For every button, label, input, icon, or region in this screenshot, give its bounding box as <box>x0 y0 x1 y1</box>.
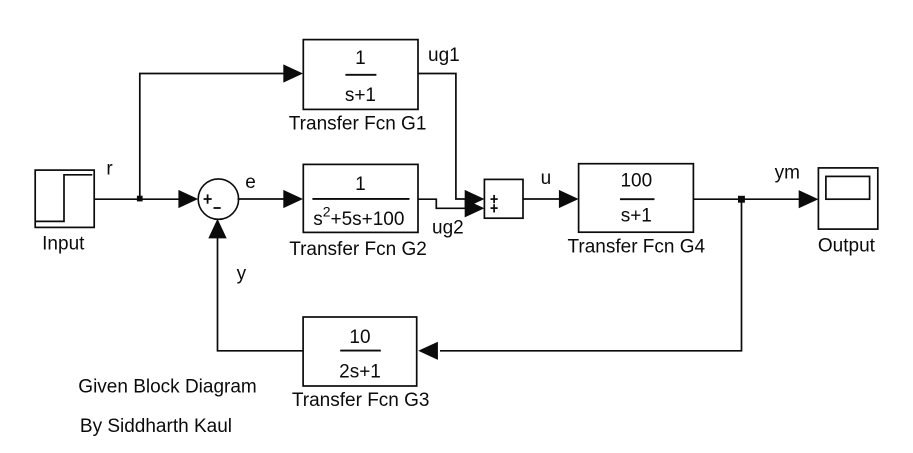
arrowhead into G4 <box>559 190 579 208</box>
feedback wire down and left to G3 <box>440 199 742 351</box>
wire input to junction and on to sum <box>94 198 180 200</box>
svg-text:u: u <box>541 168 552 189</box>
svg-text:By Siddharth Kaul: By Siddharth Kaul <box>80 416 232 437</box>
svg-text:ym: ym <box>775 162 800 183</box>
svg-text:Transfer Fcn G3: Transfer Fcn G3 <box>292 390 430 411</box>
scope Output <box>818 168 877 229</box>
transfer fcn G3 <box>303 317 417 386</box>
arrowhead into G1 <box>283 64 303 82</box>
wire ug1 from G1 down to switch upper input <box>418 74 466 200</box>
svg-text:e: e <box>245 172 256 193</box>
wire G2 to switch lower input <box>418 199 466 208</box>
wire G4 to scope <box>693 198 801 200</box>
sum junction <box>198 179 238 219</box>
arrowhead ug2 into switch <box>465 199 485 217</box>
svg-text:ug2: ug2 <box>432 218 464 239</box>
junction dot at ym <box>738 196 745 203</box>
svg-text:Transfer Fcn G2: Transfer Fcn G2 <box>289 239 427 260</box>
svg-text:1: 1 <box>355 174 366 195</box>
junction dot at r <box>137 196 143 202</box>
wire G3 to sum (feedback y) <box>218 237 304 351</box>
wire branch up from junction <box>140 74 285 200</box>
manual switch block <box>484 179 523 218</box>
svg-text:Input: Input <box>42 234 85 255</box>
svg-text:10: 10 <box>349 327 370 348</box>
arrowhead into G3 <box>418 342 438 360</box>
arrowhead into scope <box>799 190 819 208</box>
step source Input <box>35 170 94 227</box>
transfer fcn G1 <box>303 40 418 110</box>
transfer fcn G4 <box>579 164 694 233</box>
svg-text:s+1: s+1 <box>621 206 652 227</box>
svg-text:1: 1 <box>355 48 366 69</box>
arrowhead r into sum <box>178 190 198 208</box>
wire sum to G2 <box>238 198 286 200</box>
svg-text:Output: Output <box>818 236 876 257</box>
transfer fcn G2 <box>303 164 418 232</box>
wire switch to G4 <box>523 198 560 200</box>
svg-text:y: y <box>237 263 247 284</box>
svg-text:2s+1: 2s+1 <box>339 362 381 383</box>
svg-text:ug1: ug1 <box>428 45 460 66</box>
svg-text:Given Block Diagram: Given Block Diagram <box>78 376 256 397</box>
svg-text:s+1: s+1 <box>345 85 376 106</box>
arrowhead into G2 <box>283 190 303 208</box>
svg-text:s2+5s+100: s2+5s+100 <box>313 204 404 231</box>
arrowhead ug1 into switch <box>465 190 485 208</box>
svg-text:r: r <box>106 158 113 179</box>
svg-text:100: 100 <box>620 171 652 192</box>
svg-text:Transfer Fcn G4: Transfer Fcn G4 <box>567 236 705 257</box>
arrowhead y into sum <box>208 219 226 239</box>
svg-text:Transfer Fcn G1: Transfer Fcn G1 <box>289 114 427 135</box>
